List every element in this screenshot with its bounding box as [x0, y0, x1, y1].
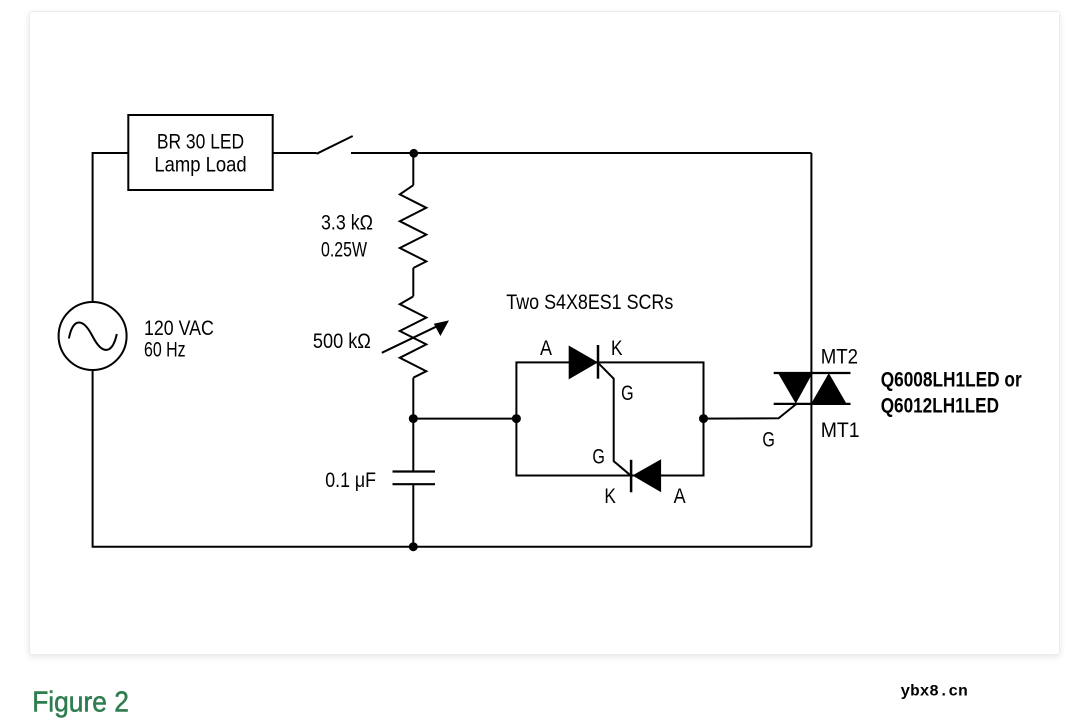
- svg-text:0.1 μF: 0.1 μF: [325, 469, 376, 492]
- svg-text:G: G: [762, 429, 775, 452]
- svg-text:A: A: [540, 337, 552, 360]
- svg-text:G: G: [592, 446, 605, 469]
- svg-text:MT1: MT1: [821, 419, 860, 442]
- svg-text:K: K: [604, 485, 616, 508]
- svg-text:BR 30 LED: BR 30 LED: [157, 130, 244, 153]
- svg-text:500 kΩ: 500 kΩ: [313, 330, 371, 353]
- svg-text:K: K: [611, 337, 623, 360]
- svg-text:Q6012LH1LED: Q6012LH1LED: [881, 395, 999, 418]
- svg-text:Figure 2: Figure 2: [32, 687, 129, 719]
- svg-text:A: A: [674, 485, 686, 508]
- svg-text:G: G: [621, 382, 634, 405]
- svg-text:60 Hz: 60 Hz: [144, 339, 186, 362]
- svg-text:0.25W: 0.25W: [321, 238, 367, 261]
- svg-text:Lamp Load: Lamp Load: [154, 153, 246, 176]
- svg-text:ybx8.cn: ybx8.cn: [901, 683, 968, 701]
- svg-text:3.3 kΩ: 3.3 kΩ: [321, 211, 373, 234]
- svg-text:Q6008LH1LED or: Q6008LH1LED or: [881, 369, 1022, 392]
- svg-text:Two S4X8ES1 SCRs: Two S4X8ES1 SCRs: [506, 291, 673, 314]
- svg-text:120 VAC: 120 VAC: [144, 317, 214, 340]
- svg-text:MT2: MT2: [821, 345, 858, 368]
